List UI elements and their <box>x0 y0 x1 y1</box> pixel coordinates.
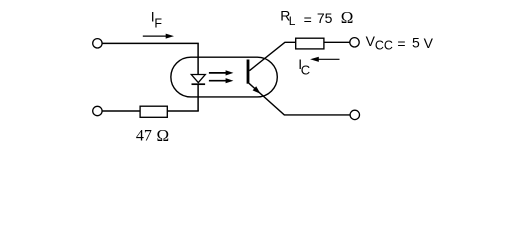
label RL = 75 ohm <box>280 7 353 28</box>
wire RL to terminal <box>324 41 350 43</box>
arrow IF current direction <box>143 34 174 39</box>
svg-text:F: F <box>154 17 162 31</box>
LED D1 cathode bar <box>192 83 206 85</box>
wire top-left horizontal <box>102 42 199 44</box>
label IC <box>298 56 310 78</box>
terminal output bottom-right <box>350 110 359 119</box>
svg-text:=: = <box>304 11 312 27</box>
svg-text:5: 5 <box>412 35 420 51</box>
resistor 47 ohm <box>140 106 167 117</box>
label Vcc = 5 V <box>366 33 434 53</box>
svg-text:Ω: Ω <box>157 126 170 145</box>
svg-text:C: C <box>301 62 310 77</box>
phototransistor Q1 collector <box>249 42 295 70</box>
terminal input top-left <box>93 39 102 48</box>
LED D1 triangle <box>191 75 205 83</box>
optocoupler package outline <box>171 57 277 97</box>
phototransistor Q1 emitter <box>249 83 350 115</box>
resistor RL <box>296 38 324 49</box>
light arrow upper <box>209 70 234 75</box>
wire resistor to LED cathode <box>167 110 199 112</box>
label IF <box>151 8 163 30</box>
wire bottom-left to resistor <box>102 110 140 112</box>
label 47 ohm <box>136 126 169 145</box>
svg-text:=: = <box>397 36 405 52</box>
light arrow lower <box>209 78 234 83</box>
phototransistor Q1 base bar <box>247 60 250 84</box>
terminal input bottom-left <box>93 106 102 115</box>
svg-text:47: 47 <box>136 128 152 145</box>
svg-text:Ω: Ω <box>341 8 354 27</box>
terminal Vcc top-right <box>350 38 359 47</box>
svg-text:CC: CC <box>375 38 393 52</box>
wire LED anode vertical <box>197 43 199 74</box>
wire LED cathode vertical <box>197 85 199 111</box>
svg-text:75: 75 <box>317 10 333 26</box>
phototransistor Q1 emitter arrow <box>253 86 261 94</box>
svg-text:L: L <box>289 14 296 28</box>
svg-text:V: V <box>424 35 434 51</box>
arrow IC current direction <box>310 57 339 62</box>
